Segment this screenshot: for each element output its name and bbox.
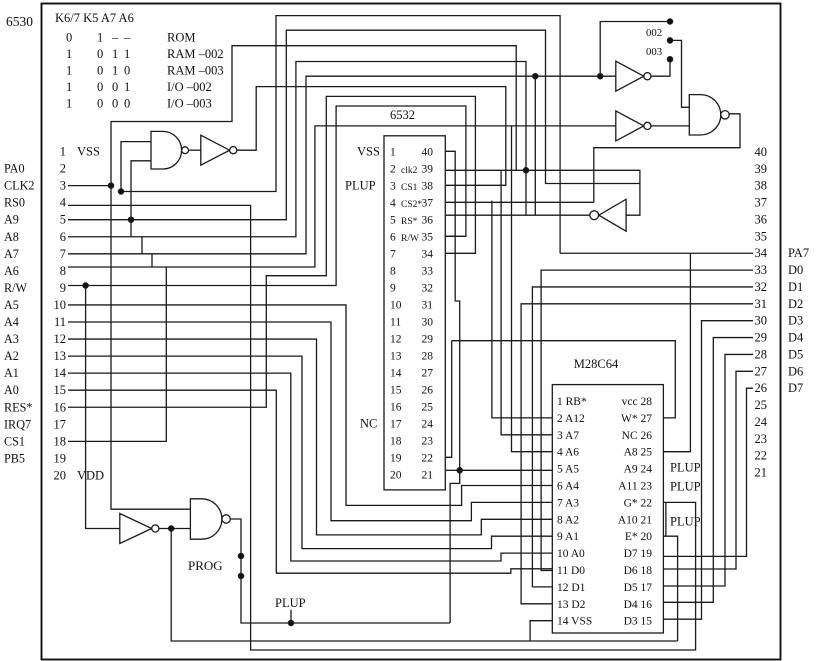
- wire pin21 node to M28C64 A5: [460, 469, 553, 471]
- wire A1 pin14 to U2 pin10: [68, 373, 552, 561]
- PLUP label bottom: [275, 596, 306, 610]
- inverter U4D: [590, 199, 626, 231]
- wire U4B output to 003 terminal: [651, 57, 673, 76]
- svg-text:24: 24: [755, 415, 768, 429]
- svg-text:PA7: PA7: [788, 246, 809, 260]
- svg-text:34: 34: [422, 248, 434, 260]
- wire CLK2 dropper to U3C: [111, 186, 190, 510]
- svg-text:0: 0: [124, 97, 130, 111]
- svg-text:31: 31: [755, 297, 768, 311]
- svg-text:–: –: [123, 31, 131, 45]
- svg-text:PLUP: PLUP: [345, 178, 376, 192]
- svg-text:A9: A9: [4, 213, 19, 227]
- wire U2 A6 feed: [512, 126, 553, 452]
- svg-text:CS2*: CS2*: [401, 200, 422, 210]
- wire D6 net pin27: [663, 371, 753, 569]
- svg-text:17: 17: [390, 418, 402, 430]
- svg-text:30: 30: [422, 316, 434, 328]
- wire W* net left branch to U1 pin22: [445, 341, 451, 458]
- svg-text:40: 40: [422, 146, 434, 158]
- U1 PLUP label: [345, 178, 376, 192]
- wire PLUP flag stub: [290, 610, 292, 623]
- wire A6 branch to CS1 pin18: [68, 267, 166, 441]
- svg-text:3: 3: [60, 179, 66, 193]
- svg-text:A10 21: A10 21: [618, 514, 652, 526]
- svg-text:PLUP: PLUP: [670, 461, 701, 475]
- wire D2 net pin31: [521, 304, 753, 604]
- svg-text:A8 25: A8 25: [624, 447, 653, 459]
- svg-text:35: 35: [422, 231, 434, 243]
- wire U3B output to U1 pin37 line: [594, 114, 740, 203]
- svg-text:A8: A8: [4, 230, 19, 244]
- svg-text:36: 36: [755, 212, 768, 226]
- svg-text:0: 0: [97, 80, 103, 94]
- svg-text:27: 27: [755, 364, 768, 378]
- wire A9 pin5 net: [68, 30, 640, 222]
- svg-text:29: 29: [755, 331, 768, 345]
- 6530 socket left pin numbers 1-20: [54, 145, 105, 483]
- wire A7 pin7 net to U4B: [68, 74, 616, 254]
- wire U1 pin37 stub line: [445, 201, 594, 203]
- svg-text:D3 15: D3 15: [624, 616, 653, 628]
- wire A8 pin6 net: [68, 62, 529, 237]
- svg-text:11: 11: [390, 316, 401, 328]
- wire R/W pin9 loop to U1 pin35: [68, 106, 466, 288]
- svg-text:A0: A0: [4, 383, 19, 397]
- IC name label 6530: [6, 14, 33, 29]
- svg-text:A2: A2: [4, 349, 19, 363]
- svg-text:29: 29: [422, 333, 434, 345]
- svg-text:1: 1: [60, 145, 66, 159]
- U1 VSS label: [357, 144, 380, 158]
- svg-text:14 VSS: 14 VSS: [557, 616, 592, 628]
- inverter U4C: [616, 111, 651, 141]
- wire W* net to M28C64 pin27: [452, 341, 676, 418]
- svg-text:0: 0: [97, 47, 103, 61]
- svg-text:16: 16: [54, 400, 67, 414]
- IC U1 6532 body and pins: [384, 136, 445, 490]
- svg-text:0: 0: [97, 64, 103, 78]
- svg-text:1: 1: [66, 80, 72, 94]
- svg-text:K6/7 K5 A7 A6: K6/7 K5 A7 A6: [55, 11, 134, 25]
- wire U4A output to U1 pin38: [237, 87, 506, 186]
- svg-text:D1: D1: [788, 280, 803, 294]
- wire A2 pin13 to U2 pin9: [68, 356, 552, 548]
- wire A4 pin11 to U2 pin7: [68, 322, 552, 521]
- svg-text:6: 6: [390, 231, 396, 243]
- wire H_E dropper: [534, 76, 536, 215]
- svg-text:14: 14: [54, 366, 67, 380]
- svg-text:IRQ7: IRQ7: [4, 417, 31, 431]
- svg-text:D0: D0: [788, 263, 803, 277]
- svg-text:D7: D7: [788, 381, 803, 395]
- svg-text:003: 003: [646, 46, 662, 58]
- svg-text:PLUP: PLUP: [275, 596, 306, 610]
- svg-text:37: 37: [755, 196, 768, 210]
- wire G* to E* tie: [665, 502, 667, 536]
- svg-text:A6: A6: [4, 264, 19, 278]
- svg-text:36: 36: [422, 214, 434, 226]
- wire A3 pin12 to U2 pin8: [68, 339, 552, 535]
- wire ladder jog p6-p7: [141, 237, 143, 254]
- svg-text:G* 22: G* 22: [624, 497, 653, 509]
- svg-text:VDD: VDD: [77, 468, 104, 482]
- svg-text:PB5: PB5: [4, 451, 25, 465]
- wire D7 net pin26: [663, 388, 753, 556]
- svg-text:vcc 28: vcc 28: [622, 396, 653, 408]
- svg-text:8: 8: [390, 265, 396, 277]
- svg-text:5: 5: [60, 213, 66, 227]
- svg-text:2 A12: 2 A12: [557, 413, 585, 425]
- svg-text:7: 7: [390, 248, 396, 260]
- svg-text:6 A4: 6 A4: [557, 481, 579, 493]
- svg-text:6530: 6530: [6, 14, 33, 29]
- wire pin21 node dropper to PLUP line: [450, 470, 460, 623]
- svg-text:34: 34: [755, 246, 768, 260]
- svg-text:38: 38: [422, 180, 434, 192]
- svg-text:1: 1: [66, 64, 72, 78]
- svg-text:VSS: VSS: [77, 145, 100, 159]
- svg-text:16: 16: [390, 401, 402, 413]
- svg-text:clk2: clk2: [401, 166, 418, 176]
- svg-text:M28C64: M28C64: [574, 357, 619, 371]
- svg-text:24: 24: [422, 418, 434, 430]
- svg-text:A7: A7: [4, 247, 19, 261]
- wire PA7 net pin34: [560, 252, 753, 254]
- svg-text:23: 23: [422, 435, 434, 447]
- svg-text:15: 15: [390, 384, 402, 396]
- svg-text:12: 12: [390, 333, 402, 345]
- svg-text:RAM –003: RAM –003: [167, 64, 224, 78]
- svg-text:D5: D5: [788, 347, 803, 361]
- svg-text:32: 32: [755, 280, 768, 294]
- svg-text:19: 19: [54, 451, 67, 465]
- svg-text:E* 20: E* 20: [625, 531, 652, 543]
- inverter U4B: [616, 61, 651, 91]
- svg-text:RES*: RES*: [4, 400, 32, 414]
- svg-text:A4: A4: [4, 315, 19, 329]
- svg-text:3 A7: 3 A7: [557, 430, 579, 442]
- svg-text:R/W: R/W: [401, 234, 419, 244]
- svg-text:RS*: RS*: [401, 217, 418, 227]
- svg-text:10: 10: [390, 299, 402, 311]
- svg-text:0: 0: [66, 31, 72, 45]
- svg-text:23: 23: [755, 432, 768, 446]
- svg-text:1: 1: [112, 64, 118, 78]
- svg-text:1: 1: [66, 97, 72, 111]
- svg-text:13 D2: 13 D2: [557, 599, 586, 611]
- svg-text:PROG: PROG: [188, 558, 223, 573]
- svg-text:33: 33: [422, 265, 434, 277]
- svg-text:1: 1: [124, 47, 130, 61]
- svg-text:0: 0: [97, 97, 103, 111]
- svg-text:D6: D6: [788, 364, 803, 378]
- wire CLK2 pin3 net: [68, 183, 114, 188]
- U2 label M28C64: [574, 357, 619, 371]
- inverter U4A: [201, 135, 237, 165]
- nand gate U3B: [689, 95, 729, 135]
- svg-text:22: 22: [422, 452, 434, 464]
- wire A5 pin10 to U2 pin6: [68, 305, 552, 505]
- svg-text:33: 33: [755, 263, 768, 277]
- nand gate U3A: [151, 131, 189, 169]
- svg-text:NC 26: NC 26: [622, 430, 653, 442]
- wire U4D output to U1 pin36: [445, 214, 590, 216]
- svg-text:7 A3: 7 A3: [557, 497, 579, 509]
- svg-text:11 D0: 11 D0: [557, 565, 585, 577]
- svg-text:RAM –002: RAM –002: [167, 47, 224, 61]
- svg-text:A1: A1: [4, 366, 19, 380]
- wire D1 net pin32: [532, 287, 753, 587]
- wire D5 net pin28: [663, 354, 753, 586]
- PROG label: [188, 558, 223, 573]
- svg-text:D5 17: D5 17: [624, 582, 653, 594]
- svg-text:1 RB*: 1 RB*: [557, 396, 587, 408]
- svg-text:9 A1: 9 A1: [557, 531, 579, 543]
- svg-text:10 A0: 10 A0: [557, 548, 585, 560]
- svg-text:A5: A5: [4, 298, 19, 312]
- svg-text:CS1: CS1: [401, 183, 418, 193]
- svg-text:NC: NC: [360, 416, 377, 430]
- svg-text:D4 16: D4 16: [624, 599, 653, 611]
- svg-text:14: 14: [390, 367, 402, 379]
- wire U1 pin21 stub: [445, 469, 459, 471]
- svg-text:35: 35: [755, 229, 768, 243]
- svg-text:5 A5: 5 A5: [557, 464, 579, 476]
- wire 003 to U3B input wire: [667, 38, 689, 108]
- svg-text:–: –: [111, 31, 119, 45]
- svg-text:PA0: PA0: [4, 162, 25, 176]
- wire U4E output to U3C: [159, 526, 191, 531]
- svg-text:W* 27: W* 27: [621, 413, 652, 425]
- svg-text:20: 20: [54, 468, 67, 482]
- wire U1 pin39 to U4D input: [445, 170, 640, 215]
- svg-text:12: 12: [54, 332, 67, 346]
- wire D0 net pin33: [541, 270, 753, 570]
- svg-text:A3: A3: [4, 332, 19, 346]
- svg-text:37: 37: [422, 197, 434, 209]
- svg-text:7: 7: [60, 247, 66, 261]
- svg-text:6: 6: [60, 230, 66, 244]
- svg-text:8: 8: [60, 264, 66, 278]
- svg-text:VSS: VSS: [357, 144, 380, 158]
- svg-text:11: 11: [54, 315, 66, 329]
- svg-text:20: 20: [390, 469, 402, 481]
- svg-text:PLUP: PLUP: [670, 480, 701, 494]
- svg-text:2: 2: [60, 162, 66, 176]
- svg-text:18: 18: [54, 434, 67, 448]
- svg-text:22: 22: [755, 449, 768, 463]
- svg-text:39: 39: [755, 162, 768, 176]
- inverter U4E: [120, 514, 159, 544]
- svg-text:18: 18: [390, 435, 402, 447]
- svg-text:CS1: CS1: [4, 434, 25, 448]
- svg-text:17: 17: [54, 417, 67, 431]
- svg-text:8 A2: 8 A2: [557, 514, 579, 526]
- U2 pullup label PLUP near pin 23: [670, 480, 701, 494]
- wire U3A input1 net: [118, 16, 560, 254]
- 6530 signal name labels: [4, 162, 34, 466]
- svg-text:D4: D4: [788, 331, 804, 345]
- svg-text:10: 10: [54, 298, 67, 312]
- svg-text:D6 18: D6 18: [624, 565, 653, 577]
- svg-text:0: 0: [112, 80, 118, 94]
- nand gate U3C: [190, 499, 230, 539]
- svg-text:26: 26: [422, 384, 434, 396]
- U1 label 6532: [390, 108, 415, 122]
- svg-text:6532: 6532: [390, 108, 415, 122]
- svg-text:27: 27: [422, 367, 434, 379]
- svg-text:R/W: R/W: [4, 281, 28, 295]
- svg-text:30: 30: [755, 314, 768, 328]
- right connector pin numbers 40-21: [755, 145, 768, 480]
- svg-text:21: 21: [755, 466, 768, 480]
- svg-text:4: 4: [390, 197, 396, 209]
- svg-text:5: 5: [390, 214, 396, 226]
- svg-text:39: 39: [422, 163, 434, 175]
- wire RES* pin16 loop to U1 pin34: [68, 96, 475, 407]
- svg-text:13: 13: [390, 350, 402, 362]
- wire CLK2 riser to table bus: [111, 46, 516, 186]
- wire R/W dropper to U4E: [86, 286, 120, 529]
- svg-text:9: 9: [60, 281, 66, 295]
- svg-text:26: 26: [755, 381, 768, 395]
- 002 terminal label: [646, 27, 662, 39]
- wire 002 terminal wire: [600, 19, 672, 76]
- svg-text:002: 002: [646, 27, 662, 39]
- svg-text:D7 19: D7 19: [624, 548, 653, 560]
- svg-text:RS0: RS0: [4, 196, 25, 210]
- svg-text:CLK2: CLK2: [4, 179, 34, 193]
- wire U1 pin40 to pin35 tie: [445, 151, 455, 236]
- svg-text:31: 31: [422, 299, 434, 311]
- svg-text:I/O –003: I/O –003: [167, 97, 212, 111]
- wire U2 A12 feed: [492, 201, 552, 418]
- address decode truth table: [55, 11, 224, 111]
- svg-text:38: 38: [755, 179, 768, 193]
- svg-text:A11 23: A11 23: [618, 481, 652, 493]
- svg-text:1: 1: [112, 47, 118, 61]
- wire PA7 branch to U2 pin25: [663, 253, 690, 451]
- svg-text:1: 1: [124, 80, 130, 94]
- wire U2 A7 feed: [501, 170, 552, 435]
- svg-text:2: 2: [390, 163, 396, 175]
- svg-text:0: 0: [124, 64, 130, 78]
- svg-text:A9 24: A9 24: [624, 464, 653, 476]
- wire ladder jog p7-p8: [151, 254, 153, 267]
- svg-text:1: 1: [97, 31, 103, 45]
- wire A0 pin15 to U2 pin11: [68, 390, 552, 573]
- svg-text:15: 15: [54, 383, 67, 397]
- wire U2 E* pin20 dropper: [663, 536, 677, 641]
- svg-text:9: 9: [390, 282, 396, 294]
- svg-text:12 D1: 12 D1: [557, 582, 586, 594]
- svg-text:4: 4: [60, 196, 67, 210]
- wire D4 net pin29: [663, 338, 753, 603]
- wire D3 net pin30: [663, 321, 753, 620]
- wire RS0 pin4 to U2 G*: [68, 205, 696, 650]
- svg-text:21: 21: [422, 469, 434, 481]
- 003 terminal label: [646, 46, 662, 58]
- svg-text:13: 13: [54, 349, 67, 363]
- svg-text:ROM: ROM: [167, 31, 195, 45]
- wire U2 VSS dropper: [530, 621, 552, 641]
- wire U4C output to U3B: [651, 125, 689, 127]
- svg-text:1: 1: [66, 47, 72, 61]
- svg-text:3: 3: [390, 180, 396, 192]
- svg-text:0: 0: [112, 97, 118, 111]
- svg-text:I/O –002: I/O –002: [167, 80, 212, 94]
- IC U2 M28C64 body and pins: [552, 385, 663, 633]
- U2 pullup label PLUP near pin 21: [670, 514, 701, 528]
- svg-text:4 A6: 4 A6: [557, 447, 579, 459]
- svg-text:32: 32: [422, 282, 434, 294]
- svg-text:40: 40: [755, 145, 768, 159]
- svg-text:1: 1: [390, 146, 396, 158]
- wire U4E branch to bottom bus: [171, 529, 677, 642]
- svg-text:D2: D2: [788, 297, 803, 311]
- svg-text:28: 28: [755, 347, 768, 361]
- svg-text:D3: D3: [788, 314, 803, 328]
- right connector signal labels PA7 D0-D7: [788, 246, 809, 395]
- wire U3C output PROG net: [230, 519, 450, 626]
- svg-text:25: 25: [422, 401, 434, 413]
- wire A6 pin8 net to U4C: [68, 126, 616, 267]
- wire A9 branch to U3A input2: [131, 161, 151, 237]
- svg-text:19: 19: [390, 452, 402, 464]
- wire pin40 tie dropper: [455, 236, 462, 473]
- svg-text:28: 28: [422, 350, 434, 362]
- svg-text:25: 25: [755, 398, 768, 412]
- U2 pullup label PLUP near pin 24: [670, 461, 701, 475]
- U1 NC label: [360, 416, 377, 430]
- wire U3A output to U4A: [189, 149, 201, 151]
